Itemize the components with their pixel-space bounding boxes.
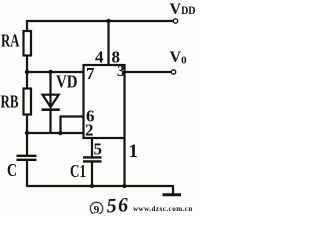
resistor RB bbox=[24, 89, 32, 115]
node junction riser pin6 bbox=[58, 131, 62, 135]
svg-text:9: 9 bbox=[94, 204, 100, 214]
svg-text:2: 2 bbox=[85, 121, 94, 140]
wire pin 2 bbox=[26, 132, 84, 134]
wire pin 5 to C1 bbox=[91, 139, 93, 158]
diode VD bbox=[42, 95, 60, 110]
wire VDD rail top bbox=[26, 20, 174, 22]
wire pin 7 bbox=[27, 71, 84, 73]
wire C top stub bbox=[26, 133, 28, 156]
node junction pin4-8 rail bbox=[106, 19, 110, 23]
wire C1 bottom stub bbox=[91, 162, 93, 186]
node junction C1 ground bbox=[90, 184, 94, 188]
capacitor C bbox=[17, 156, 37, 160]
svg-text:5: 5 bbox=[94, 140, 103, 159]
wire RA top stub bbox=[26, 20, 28, 31]
node junction RB-C-pin2 bbox=[25, 131, 29, 135]
svg-text:C: C bbox=[7, 160, 17, 180]
wire diode cathode stub bbox=[49, 110, 51, 133]
resistor RA bbox=[24, 31, 32, 56]
svg-text:VD: VD bbox=[56, 72, 78, 92]
wire riser to pin 6 bbox=[61, 117, 85, 134]
wire RB bottom stub bbox=[26, 115, 28, 134]
wire pin 3 output bbox=[125, 71, 172, 73]
wire C bottom stub bbox=[26, 161, 28, 186]
svg-text:1: 1 bbox=[129, 141, 139, 162]
svg-text:RA: RA bbox=[1, 31, 20, 51]
ground bbox=[172, 185, 174, 194]
terminal V0 bbox=[171, 70, 175, 74]
svg-text:V0: V0 bbox=[170, 49, 188, 67]
wire ground rail bottom bbox=[26, 185, 173, 187]
node annotation circled 9 bbox=[90, 202, 102, 214]
node junction diode top bbox=[48, 70, 52, 74]
svg-text:RB: RB bbox=[1, 92, 19, 112]
node junction pin1 ground bbox=[122, 184, 126, 188]
svg-text:7: 7 bbox=[86, 64, 95, 83]
terminal VDD bbox=[173, 19, 177, 23]
node junction RA-RB-pin7 bbox=[25, 70, 29, 74]
wire pin 1 down bbox=[123, 138, 125, 186]
svg-text:56: 56 bbox=[106, 194, 130, 214]
wire RA to RB bbox=[26, 56, 28, 89]
op-amp U1 timer 555 body bbox=[84, 65, 125, 138]
capacitor C1 bbox=[83, 157, 102, 161]
wire diode anode stub bbox=[49, 72, 51, 107]
svg-text:VDD: VDD bbox=[170, 1, 196, 18]
svg-text:3: 3 bbox=[117, 63, 125, 80]
svg-text:www.dzsc.com.cn: www.dzsc.com.cn bbox=[133, 205, 193, 213]
svg-text:4: 4 bbox=[95, 48, 104, 67]
wire pins 4 and 8 to VDD bbox=[107, 21, 109, 65]
svg-text:C1: C1 bbox=[70, 161, 86, 181]
